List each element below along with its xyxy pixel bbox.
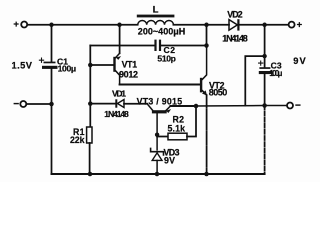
wire VT1 collector to VT2 base [120,84,200,86]
capacitor C3 bottom plate [259,71,272,74]
transistor VT1 base bar [113,57,115,72]
node R1 bottom on ground rail [88,172,93,177]
inductor L winding humps [138,20,174,24]
svg-text:9012: 9012 [119,69,138,79]
node VT1 base junction [88,63,93,68]
node battery minus junction [49,102,54,107]
wire VD1 left (VT1 base column to VD1) [90,103,115,105]
terminal battery minus [20,101,26,107]
svg-text:L: L [153,4,159,15]
svg-text:8050: 8050 [209,88,228,98]
svg-text:VT1: VT1 [122,60,138,70]
node VD3 bottom on ground rail [155,172,160,177]
zener diode VD3 cathode bar with bent ends [151,148,164,155]
wire left battery vertical lower (C1 to minus node) [51,69,53,174]
svg-text:22k: 22k [70,135,85,145]
wire top rail left (battery + to inductor) [28,24,138,26]
capacitor C1 polarity plus mark [39,58,43,62]
node VT2 emitter on ground rail [204,172,209,177]
svg-text:+: + [13,19,19,30]
wire left battery vertical upper (to C1 top plate) [51,25,53,62]
wire output minus line (junction to C3 column and terminal) [196,105,287,108]
capacitor C1 top plate (+) [44,62,56,64]
transistor VT2 collector lead [202,46,206,80]
resistor R2 body [168,133,187,140]
wire VD3 anode to ground rail [156,160,158,174]
svg-text:5.1k: 5.1k [168,124,186,134]
svg-text:100μ: 100μ [269,69,282,78]
svg-text:1.5V: 1.5V [12,60,33,70]
wire C2 left branch vertical (VT1 base node column) [89,46,91,128]
capacitor C1 bottom plate [42,66,58,69]
wire C2 horizontal left (base node to C2) [90,45,154,47]
capacitor C3 top plate (+) [259,67,270,69]
wire R2 right lead to corner [187,106,196,137]
diode VD2 cathode bar [237,19,239,30]
svg-text:VT3 / 9015: VT3 / 9015 [137,96,183,106]
wire VT1 base [90,64,113,66]
svg-text:1N4148: 1N4148 [104,109,129,119]
resistor R1 body [87,127,92,143]
wire top rail middle (inductor to VD2) [173,24,229,26]
wire R2 left lead [157,136,168,138]
node VT1 emitter junction on top rail [117,23,122,28]
terminal battery plus [21,22,27,28]
transistor VT1 collector lead [116,71,120,85]
diode VD2 (1N4148) triangle [229,20,237,31]
node C3 upper branch junction [262,54,266,58]
wire VT2 emitter to ground rail [206,95,208,174]
capacitor C3 polarity plus mark [259,61,263,65]
svg-text:−: − [295,101,301,112]
terminal output plus [289,22,295,28]
wire battery minus terminal to junction [26,103,51,105]
svg-text:VD1: VD1 [112,88,126,98]
wire VT3 base lead down [156,113,158,149]
node output minus / C3 bottom junction [262,103,267,108]
svg-text:1N4148: 1N4148 [222,34,248,44]
svg-text:510p: 510p [157,54,176,64]
transistor VT2 base bar [200,78,202,93]
transistor VT1 emitter lead with arrow [116,53,120,57]
wire C3 column upper (top rail to C3) [264,25,266,67]
transistor VT3 collector lead [147,104,152,110]
svg-text:VD2: VD2 [227,9,243,19]
wire branch from C3 column to left [245,56,264,105]
node R2 / VT3 emitter / output minus junction [194,104,199,109]
diode VD1 cathode bar [115,99,117,107]
wire VT1 emitter to top rail [119,25,121,54]
wire C2 horizontal right (C2 to VT2 collector line) [161,45,206,47]
svg-text:+: + [297,19,303,30]
terminal output minus [287,103,293,109]
transistor VT3 emitter lead with arrow [166,106,170,110]
svg-text:9V: 9V [164,155,175,165]
svg-text:9V: 9V [293,56,306,66]
capacitor C2 left plate [154,40,156,51]
wire VD1 anode to VT3 collector [124,103,147,105]
node VD1 cathode junction [88,101,93,106]
inductor L core bar [137,15,175,18]
wire C3 column lower (C3 to ground rail corner) [264,74,266,105]
svg-text:−: − [13,99,19,110]
wire bottom ground rail [52,173,265,175]
svg-text:200~400μH: 200~400μH [138,27,186,37]
wire R1 bottom to ground rail [89,143,91,174]
node C2 right junction [204,43,209,48]
node VT2 collector junction on top rail [204,23,209,28]
node VT3 base / R2 / VD3 junction [155,133,159,137]
capacitor C2 right plate [159,40,161,51]
zener diode VD3 triangle (anode below, apex up) [152,153,162,161]
transistor VT3 base bar (horizontal) [152,110,167,113]
diode VD1 triangle (anode right) [117,100,124,108]
transistor VT2 emitter lead with arrow [202,91,206,96]
node battery plus junction (C1 top) [49,23,54,28]
wire VT3 emitter to output minus line [170,105,196,107]
wire VT2 collector junction to top rail [206,25,208,46]
svg-text:100μ: 100μ [58,64,77,74]
node C3 top junction [262,23,267,28]
wire top rail right (VD2 to output +) [240,24,289,26]
